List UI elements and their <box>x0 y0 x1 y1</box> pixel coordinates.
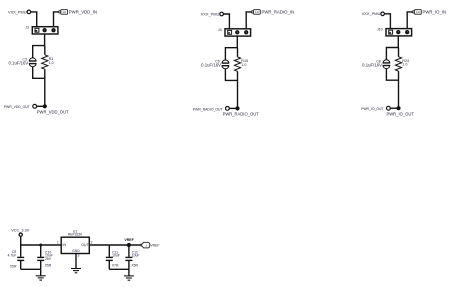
svg-text:PWR_VDD_OUT: PWR_VDD_OUT <box>37 110 69 115</box>
svg-text:J4: J4 <box>218 28 222 32</box>
svg-text:1.0: 1.0 <box>241 63 246 67</box>
wire pin2 down / split <box>386 36 398 60</box>
capacitor C10 <box>37 245 44 269</box>
wire VCC bus <box>21 236 62 245</box>
svg-text:0.1uF/16V: 0.1uF/16V <box>201 63 221 68</box>
wire resistor leads <box>44 46 46 107</box>
wire cap bottom rail <box>225 69 237 81</box>
wire port to pin1 <box>31 12 37 27</box>
svg-text:VXX_PMU: VXX_PMU <box>201 11 220 16</box>
resistor R1 <box>42 55 48 69</box>
svg-text:10uF: 10uF <box>132 254 140 258</box>
svg-text:VCC_3.3V: VCC_3.3V <box>11 228 29 232</box>
wire pin3 to PWR_IO_IN <box>407 12 412 29</box>
junction PWR_IO_OUT <box>396 106 400 110</box>
wire pin2 down / split <box>225 36 237 60</box>
svg-text:VREF: VREF <box>150 243 159 247</box>
capacitor C12 <box>125 245 132 269</box>
wire port to pin1 <box>223 14 229 29</box>
svg-text:REF3230: REF3230 <box>68 233 82 237</box>
connector J4 <box>225 29 251 36</box>
wire resistor leads <box>398 48 400 109</box>
port VXX_PMU <box>27 10 31 14</box>
svg-text:PWR_VDD_IN: PWR_VDD_IN <box>69 9 97 14</box>
connector PWR_IO_IN (1-pin) <box>412 10 421 15</box>
port VXX_PMU <box>220 12 224 16</box>
capacitor C8 <box>383 60 391 69</box>
ground (input caps) <box>36 269 46 280</box>
wire input cap rail <box>21 268 41 270</box>
ground (output caps) <box>124 269 134 280</box>
junction PWR_RADIO_OUT <box>235 106 239 110</box>
capacitor C3 <box>29 58 37 67</box>
svg-text:J10: J10 <box>377 28 383 32</box>
resistor R15 <box>234 57 240 71</box>
svg-text:J3: J3 <box>25 26 29 30</box>
wire pin3 to PWR_RADIO_IN <box>246 12 251 29</box>
junction VREF <box>127 243 131 247</box>
wire output cap rail <box>109 268 129 270</box>
svg-text:GND: GND <box>72 249 80 253</box>
ground U1 <box>71 254 81 273</box>
port PWR_RADIO_OUT <box>226 107 230 111</box>
svg-text:10uF: 10uF <box>112 254 120 258</box>
wire junction to port <box>37 105 45 107</box>
port PWR_IO_OUT <box>387 106 391 110</box>
svg-text:X7R: X7R <box>112 264 119 268</box>
port VCC_3.3V <box>19 233 22 236</box>
svg-text:X5R: X5R <box>131 264 138 268</box>
wire OUT bus <box>89 244 141 246</box>
svg-text:2: 2 <box>91 241 93 245</box>
svg-text:1.0: 1.0 <box>49 61 54 65</box>
svg-text:1: 1 <box>57 241 59 245</box>
junction PWR_VDD_OUT <box>43 104 47 108</box>
port PWR_VDD_OUT <box>33 104 37 108</box>
svg-text:VXX_PMU: VXX_PMU <box>362 11 381 16</box>
svg-text:PWR_RADIO_OUT: PWR_RADIO_OUT <box>223 112 260 117</box>
svg-text:PWR_RADIO_IN: PWR_RADIO_IN <box>262 9 295 14</box>
svg-text:VREF: VREF <box>124 238 134 242</box>
connector PWR_RADIO_IN (1-pin) <box>251 10 260 15</box>
svg-text:OUT: OUT <box>81 243 88 247</box>
connector PWR_VDD_IN (1-pin) <box>59 10 68 15</box>
op-amp U1 (regulator REF3230) <box>61 237 89 253</box>
resistor R24 <box>395 57 401 71</box>
svg-text:25V: 25V <box>45 257 52 261</box>
wire pin3 to PWR_VDD_IN <box>54 12 59 27</box>
svg-text:1.0: 1.0 <box>402 63 407 67</box>
wire pin2 down / split <box>33 34 45 58</box>
wire cap bottom rail <box>386 69 398 81</box>
svg-text:X5R: X5R <box>45 264 52 268</box>
svg-text:PWR_IO_OUT: PWR_IO_OUT <box>387 111 415 116</box>
capacitor C6 <box>222 60 230 69</box>
svg-text:PWR_RADIO_OUT: PWR_RADIO_OUT <box>193 107 223 111</box>
capacitor C11 <box>106 245 113 269</box>
wire resistor leads <box>237 48 239 109</box>
port VXX_PMU <box>381 12 385 16</box>
svg-text:PWR_IO_OUT: PWR_IO_OUT <box>361 107 383 111</box>
svg-text:VXX_PMU: VXX_PMU <box>8 9 27 14</box>
connector J10 <box>386 29 412 36</box>
svg-text:4.7uF: 4.7uF <box>8 254 17 258</box>
connector VREF (1-pin) <box>141 242 150 248</box>
svg-text:0.1uF/16V: 0.1uF/16V <box>8 61 28 66</box>
capacitor C9 <box>17 245 24 269</box>
wire junction to port <box>390 107 398 109</box>
connector J3 <box>32 27 58 34</box>
junction C10 tap <box>39 244 42 247</box>
svg-text:0.1uF/16V: 0.1uF/16V <box>362 62 382 67</box>
wire junction to port <box>229 107 237 109</box>
svg-text:PWR_VDD_OUT: PWR_VDD_OUT <box>4 105 30 109</box>
svg-text:X5R: X5R <box>10 264 17 268</box>
svg-text:IN: IN <box>63 243 67 247</box>
svg-text:PWR_IO_IN: PWR_IO_IN <box>423 9 447 14</box>
svg-text:3: 3 <box>78 254 80 258</box>
wire cap bottom rail <box>33 67 45 79</box>
wire port to pin1 <box>384 14 390 29</box>
